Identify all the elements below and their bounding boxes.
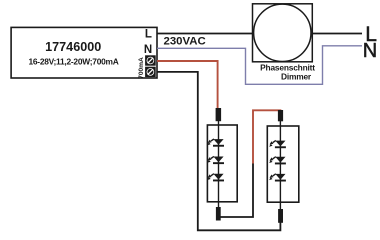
- module M2 bottom terminal: [278, 209, 283, 223]
- svg-text:17746000: 17746000: [45, 40, 101, 54]
- LED D2: [207, 156, 224, 164]
- series wire M1 to M2 red part: [253, 110, 280, 163]
- LED D6: [269, 174, 286, 182]
- wire N driver to mains (blue): [157, 46, 362, 85]
- series wire M1 to M2 black part: [219, 163, 253, 217]
- svg-text:N: N: [144, 44, 152, 56]
- dimmer U2 box: [253, 4, 313, 62]
- LED D5: [269, 157, 286, 165]
- module M1 bottom terminal: [216, 207, 221, 221]
- svg-text:L: L: [145, 29, 152, 41]
- svg-text:N: N: [363, 40, 377, 62]
- screw terminal +OUT: [145, 55, 156, 65]
- wire - black return driver to module M2: [157, 72, 280, 230]
- module M1 chain wire: [218, 120, 220, 208]
- svg-text:Dimmer: Dimmer: [281, 72, 312, 82]
- screw terminal -OUT: [145, 67, 156, 77]
- module M1 top terminal: [216, 108, 222, 121]
- LED module M1 box: [207, 125, 237, 202]
- LED D1: [207, 139, 224, 147]
- svg-text:700mA: 700mA: [138, 57, 145, 79]
- svg-text:16-28V;11,2-20W;700mA: 16-28V;11,2-20W;700mA: [28, 56, 118, 66]
- LED driver U1: [11, 27, 157, 78]
- wire L dimmer to mains: [312, 33, 362, 35]
- dimmer knob: [254, 4, 311, 61]
- svg-text:230VAC: 230VAC: [164, 36, 206, 48]
- LED D4: [269, 141, 286, 149]
- LED D3: [207, 174, 224, 182]
- wire + red driver to module M1: [157, 61, 218, 110]
- module M2 chain wire: [279, 120, 281, 210]
- module M2 top terminal: [278, 110, 283, 121]
- LED module M2 box: [267, 126, 299, 202]
- wire L driver to dimmer: [157, 33, 253, 35]
